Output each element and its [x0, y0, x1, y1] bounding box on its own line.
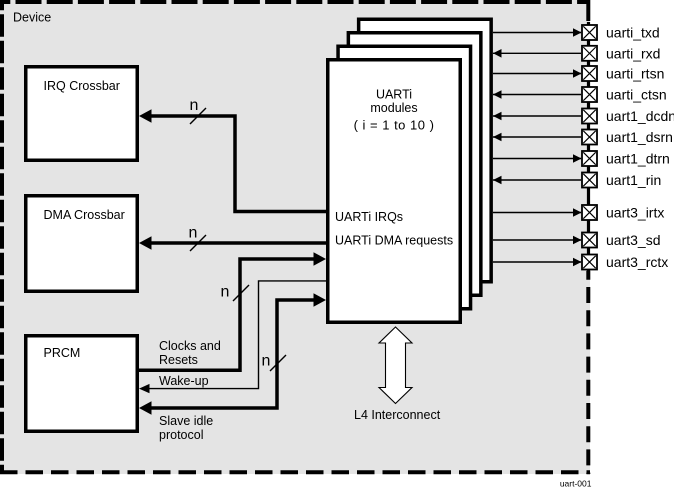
- bus width slash (clocks): [233, 285, 249, 301]
- arrowhead into DMA Crossbar: [139, 236, 152, 250]
- svg-text:n: n: [189, 224, 198, 241]
- svg-text:( i = 1 to 10 ): ( i = 1 to 10 ): [354, 118, 435, 133]
- device dashed border right: [586, 0, 590, 24]
- svg-text:PRCM: PRCM: [44, 346, 81, 360]
- svg-text:UARTi: UARTi: [376, 88, 412, 102]
- bus width slash (DMA): [190, 235, 206, 251]
- arrowhead uart3_sd (into pad): [573, 236, 582, 245]
- svg-text:uart1_dsrn: uart1_dsrn: [606, 129, 673, 145]
- arrowhead uarti_rtsn (into pad): [573, 69, 582, 78]
- pad uarti_rtsn: [582, 66, 597, 81]
- wire signal uarti_rtsn: [493, 73, 581, 75]
- bus width slash (slave idle): [270, 355, 286, 371]
- wire signal uart1_dcdn: [493, 115, 581, 117]
- wire signal uart1_dtrn: [493, 158, 581, 160]
- arrowhead into UARTi (clocks): [314, 252, 327, 266]
- arrowhead uart3_rctx (into pad): [573, 258, 582, 267]
- arrowhead uart1_dsrn (into UARTi): [493, 133, 502, 142]
- wire Slave idle protocol (PRCM to UARTi, both arrows): [147, 300, 318, 408]
- pad uart1_dsrn: [582, 130, 597, 145]
- pad uart1_dtrn: [582, 151, 597, 166]
- svg-text:uart-001: uart-001: [560, 479, 592, 489]
- arrowhead into UARTi (slave idle): [314, 293, 327, 307]
- pad uart3_sd: [582, 233, 597, 248]
- svg-text:n: n: [262, 353, 271, 370]
- device dashed border bottom: [0, 470, 590, 474]
- svg-text:uarti_ctsn: uarti_ctsn: [606, 87, 667, 103]
- svg-text:UARTi DMA requests: UARTi DMA requests: [335, 234, 453, 248]
- pad uart1_rin: [582, 173, 597, 188]
- wire signal uarti_ctsn: [493, 94, 581, 96]
- arrowhead uarti_ctsn (into UARTi): [493, 90, 502, 99]
- svg-text:Clocks and: Clocks and: [159, 339, 221, 353]
- wire signal uart3_sd: [493, 239, 581, 241]
- UARTi modules stacked box 3: [348, 33, 481, 296]
- block PRCM: [26, 336, 138, 432]
- svg-text:uart3_irtx: uart3_irtx: [606, 205, 664, 221]
- UARTi modules box 1 (front): [328, 60, 461, 323]
- svg-text:uarti_txd: uarti_txd: [606, 25, 660, 41]
- UARTi modules stacked box 4 (backmost): [359, 19, 492, 282]
- arrowhead uart1_rin (into UARTi): [493, 176, 502, 185]
- wire signal uart3_irtx: [493, 212, 581, 214]
- wire signal uarti_txd: [493, 32, 581, 34]
- pad uart3_irtx: [582, 205, 597, 220]
- wire Wake-up (UARTi to PRCM): [145, 281, 326, 389]
- bus width slash (IRQ): [190, 108, 206, 124]
- wire signal uart1_dsrn: [493, 136, 581, 138]
- wire signal uarti_rxd: [493, 52, 581, 54]
- svg-text:uarti_rtsn: uarti_rtsn: [606, 66, 664, 82]
- arrowhead uart1_dtrn (into pad): [573, 154, 582, 163]
- svg-text:Slave idle: Slave idle: [159, 414, 213, 428]
- svg-text:Device: Device: [13, 10, 51, 24]
- svg-text:uart1_dtrn: uart1_dtrn: [606, 151, 670, 167]
- svg-text:Resets: Resets: [159, 353, 198, 367]
- svg-text:uart3_sd: uart3_sd: [606, 232, 660, 248]
- pad uart3_rctx: [582, 255, 597, 270]
- svg-text:L4 Interconnect: L4 Interconnect: [354, 408, 441, 422]
- svg-text:protocol: protocol: [159, 428, 203, 442]
- block IRQ Crossbar: [26, 67, 138, 161]
- svg-text:n: n: [190, 97, 199, 114]
- svg-text:n: n: [221, 284, 230, 301]
- wire DMA bus (UARTi DMA requests to DMA Crossbar): [147, 241, 326, 245]
- pad uart1_dcdn: [582, 109, 597, 124]
- device dashed border left: [0, 0, 4, 474]
- UARTi modules stacked box 2: [338, 46, 471, 309]
- svg-text:uart1_rin: uart1_rin: [606, 172, 661, 188]
- wire IRQ bus (UARTi IRQs to IRQ Crossbar): [147, 116, 326, 212]
- svg-text:Wake-up: Wake-up: [159, 374, 209, 388]
- arrowhead uart1_dcdn (into UARTi): [493, 112, 502, 121]
- wire signal uart1_rin: [493, 179, 581, 181]
- wire signal uart3_rctx: [493, 261, 581, 263]
- svg-text:uart3_rctx: uart3_rctx: [606, 254, 668, 270]
- arrowhead uarti_txd (into pad): [573, 28, 582, 37]
- arrowhead into IRQ Crossbar: [139, 109, 152, 123]
- svg-text:UARTi IRQs: UARTi IRQs: [335, 210, 403, 224]
- pad uarti_rxd: [582, 46, 597, 61]
- pad uarti_txd: [582, 25, 597, 40]
- pad uarti_ctsn: [582, 87, 597, 102]
- arrowhead into PRCM (wake-up): [139, 384, 150, 393]
- svg-text:IRQ Crossbar: IRQ Crossbar: [44, 79, 120, 93]
- block DMA Crossbar: [26, 196, 138, 292]
- pad spine (boundary line behind pads): [587, 22, 590, 271]
- device dashed border top: [0, 0, 590, 4]
- arrowhead into PRCM (slave idle): [139, 401, 152, 415]
- arrowhead uart3_irtx (into pad): [573, 208, 582, 217]
- svg-text:modules: modules: [370, 101, 417, 115]
- svg-text:DMA Crossbar: DMA Crossbar: [44, 208, 125, 222]
- svg-text:uarti_rxd: uarti_rxd: [606, 45, 660, 61]
- wire Clocks and Resets (PRCM to UARTi): [139, 259, 318, 370]
- arrowhead uarti_rxd (into UARTi): [493, 49, 502, 58]
- svg-text:uart1_dcdn: uart1_dcdn: [606, 108, 674, 124]
- L4 Interconnect double arrow: [379, 327, 412, 404]
